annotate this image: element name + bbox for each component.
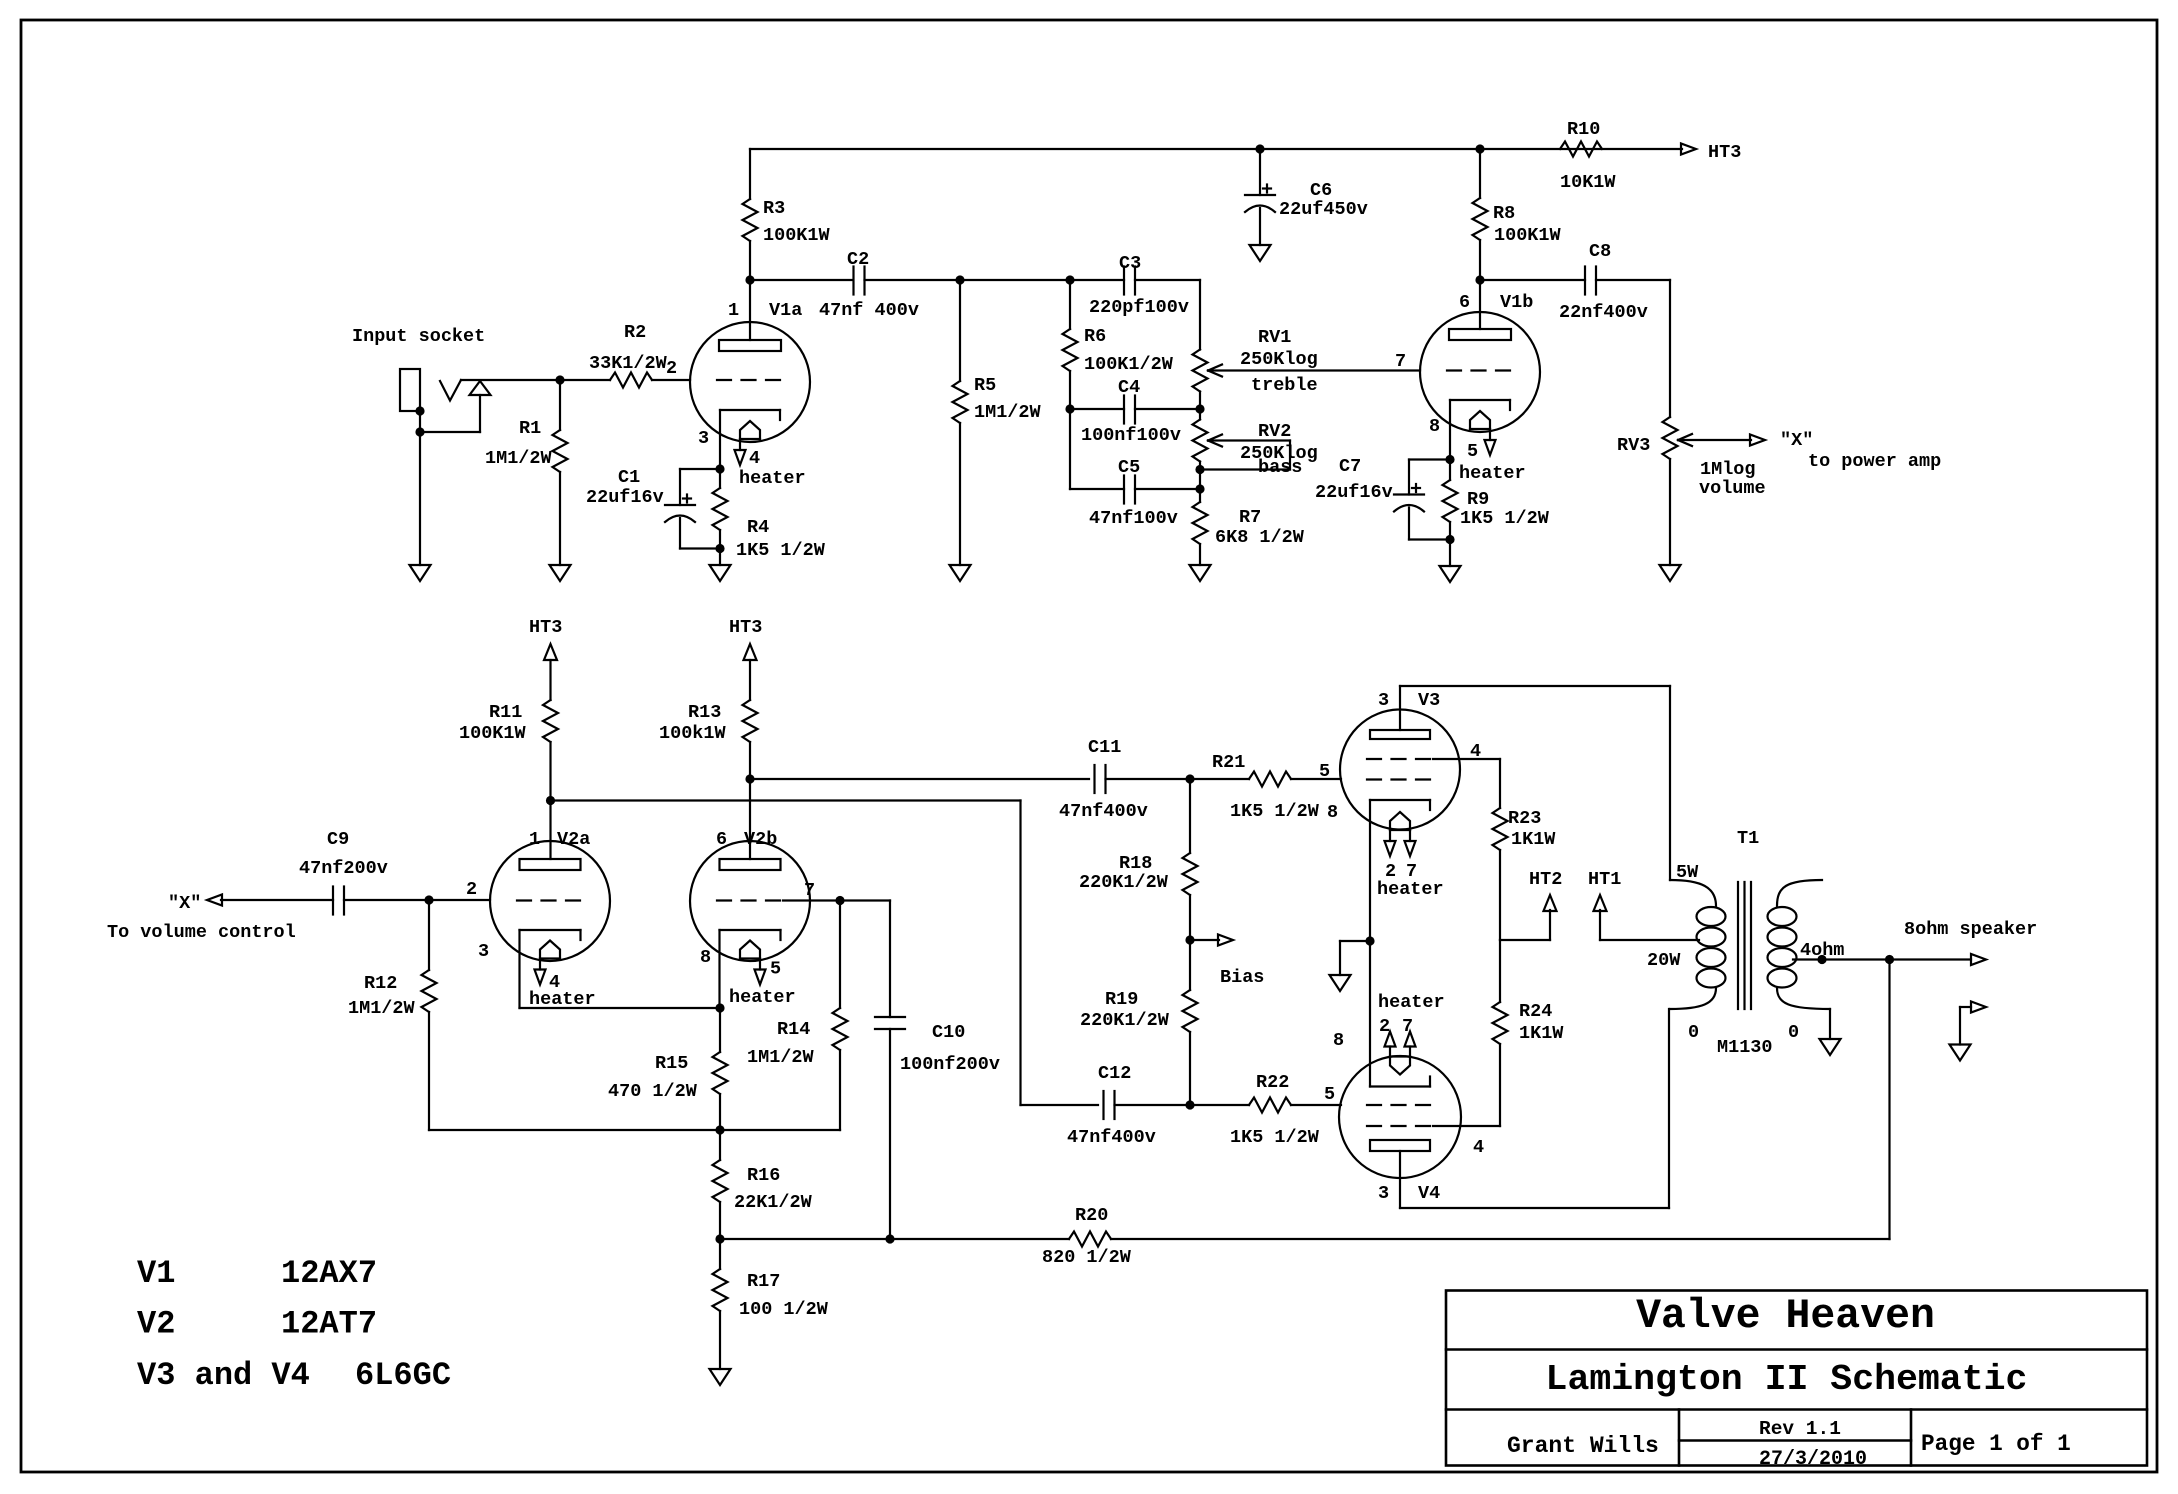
- svg-text:47nf400v: 47nf400v: [1059, 801, 1148, 822]
- resistor R15: [713, 1008, 728, 1130]
- label R9: [1460, 489, 1550, 529]
- svg-text:V3 and V4: V3 and V4: [137, 1357, 310, 1394]
- svg-text:0: 0: [1788, 1022, 1799, 1043]
- svg-text:R22: R22: [1256, 1072, 1289, 1093]
- resistor R12: [422, 900, 437, 1130]
- title page: [1921, 1431, 2071, 1457]
- capacitor C8: [1585, 267, 1596, 295]
- V3 plate loop to T1: [1400, 686, 1670, 880]
- label T1: [1647, 828, 1773, 1058]
- label V1b heater: [1459, 441, 1526, 484]
- arrow 8ohm speaker: [1971, 954, 1986, 965]
- pot RV2: [1193, 409, 1208, 474]
- svg-text:C9: C9: [327, 829, 349, 850]
- V4 screen grid: [1367, 1125, 1500, 1127]
- transformer T1 secondary: [1768, 880, 1831, 1009]
- label Bias: [1220, 967, 1264, 988]
- wire C12 to R22 node: [1115, 1104, 1191, 1106]
- ground C6: [1250, 245, 1271, 261]
- ground R5: [950, 565, 971, 581]
- svg-text:HT3: HT3: [729, 617, 762, 638]
- svg-text:1: 1: [529, 829, 540, 850]
- V1a grid: [717, 379, 783, 381]
- svg-text:Grant Wills: Grant Wills: [1507, 1433, 1659, 1459]
- svg-text:1M1/2W: 1M1/2W: [974, 402, 1042, 423]
- ground RV3: [1660, 565, 1681, 581]
- svg-text:220pf100v: 220pf100v: [1089, 297, 1189, 318]
- label V1a heater: [739, 448, 806, 489]
- label V2b heater: [729, 959, 796, 1009]
- tube V2b: [690, 841, 810, 961]
- svg-text:4ohm: 4ohm: [1800, 940, 1844, 961]
- ground R7: [1190, 565, 1211, 581]
- svg-text:R20: R20: [1075, 1205, 1108, 1226]
- label R19: [1080, 989, 1170, 1031]
- svg-text:6: 6: [1459, 292, 1470, 313]
- wire V2a cathode to V2b: [520, 1003, 725, 1012]
- svg-text:V2a: V2a: [557, 829, 590, 850]
- tube V4: [1339, 1056, 1461, 1178]
- tube list: [137, 1255, 451, 1394]
- resistor R7: [1193, 502, 1208, 565]
- title block frame: [1446, 1291, 2147, 1466]
- svg-text:R12: R12: [364, 973, 397, 994]
- svg-text:to power amp: to power amp: [1808, 451, 1941, 472]
- svg-text:R10: R10: [1567, 119, 1600, 140]
- svg-text:heater: heater: [1377, 879, 1444, 900]
- svg-text:22uf16v: 22uf16v: [1315, 482, 1393, 503]
- label V3 pin5: [1319, 761, 1330, 782]
- svg-text:V4: V4: [1418, 1183, 1440, 1204]
- ground R1: [550, 565, 571, 581]
- svg-text:V1b: V1b: [1500, 292, 1533, 313]
- label R18: [1079, 853, 1169, 893]
- V1b cathode: [1445, 400, 1510, 464]
- resistor R5: [953, 280, 968, 565]
- svg-text:220K1/2W: 220K1/2W: [1080, 1010, 1170, 1031]
- title Rev: [1759, 1418, 1841, 1440]
- speaker return: [1950, 1002, 1987, 1061]
- tube V2a: [490, 841, 610, 961]
- svg-text:R3: R3: [763, 198, 785, 219]
- svg-text:R14: R14: [777, 1019, 810, 1040]
- svg-text:M1130: M1130: [1717, 1037, 1773, 1058]
- label RV1: [1240, 327, 1318, 396]
- svg-text:22nf400v: 22nf400v: [1559, 302, 1648, 323]
- V2a plate: [520, 801, 581, 871]
- capacitor C2: [854, 267, 865, 295]
- HT3 supply V2b: [729, 617, 762, 700]
- title Grant Wills: [1507, 1433, 1659, 1459]
- label V1a pin3: [698, 428, 709, 449]
- wire V2a plate node: [551, 801, 1099, 1106]
- svg-text:20W: 20W: [1647, 950, 1681, 971]
- svg-text:Lamington II Schematic: Lamington II Schematic: [1546, 1359, 2028, 1400]
- svg-text:R24: R24: [1519, 1001, 1552, 1022]
- label C4: [1081, 377, 1181, 446]
- arrow X in: [168, 893, 222, 914]
- tube V1a: [690, 322, 810, 442]
- label V4 pin8: [1333, 1030, 1344, 1051]
- label C3: [1089, 253, 1189, 318]
- resistor R23: [1493, 808, 1508, 940]
- svg-text:heater: heater: [1378, 992, 1445, 1013]
- HT1 supply: [1588, 869, 1699, 940]
- label HT3 rail: [1708, 142, 1741, 163]
- svg-text:47nf 400v: 47nf 400v: [819, 300, 919, 321]
- label C12: [1067, 1063, 1156, 1148]
- svg-text:HT3: HT3: [529, 617, 562, 638]
- resistor R16: [713, 1130, 728, 1244]
- svg-text:C3: C3: [1119, 253, 1141, 274]
- transformer T1 primary: [1670, 880, 1726, 1009]
- label V2a pin2: [466, 879, 477, 900]
- V2a cathode: [520, 930, 581, 1008]
- label V3 pin8: [1327, 802, 1338, 823]
- title Lamington II Schematic: [1546, 1359, 2028, 1400]
- label secondary 0: [1788, 1022, 1799, 1043]
- svg-text:T1: T1: [1737, 828, 1759, 849]
- svg-text:220K1/2W: 220K1/2W: [1079, 872, 1169, 893]
- V2b cathode: [720, 930, 781, 1008]
- svg-text:R15: R15: [655, 1053, 688, 1074]
- ground input socket: [410, 432, 431, 581]
- resistor R18: [1183, 779, 1198, 945]
- svg-text:R19: R19: [1105, 989, 1138, 1010]
- svg-text:C12: C12: [1098, 1063, 1131, 1084]
- resistor R4: [713, 469, 728, 549]
- label V2a pin3: [478, 941, 489, 962]
- svg-text:8: 8: [1327, 802, 1338, 823]
- svg-text:2: 2: [666, 358, 677, 379]
- svg-text:R21: R21: [1212, 752, 1245, 773]
- label R8: [1493, 203, 1562, 246]
- svg-text:22uf16v: 22uf16v: [586, 487, 664, 508]
- ground V3 V4 cathodes: [1330, 941, 1371, 991]
- wire C9 to grid node: [344, 895, 490, 904]
- svg-text:1: 1: [728, 300, 739, 321]
- RV1 wiper: [1208, 365, 1420, 377]
- label R12: [348, 973, 416, 1019]
- svg-text:1K5 1/2W: 1K5 1/2W: [1230, 801, 1320, 822]
- V3 cathode: [1365, 800, 1430, 946]
- svg-text:4: 4: [1470, 741, 1481, 762]
- label C10: [900, 1022, 1000, 1075]
- V3 heater: [1385, 812, 1416, 856]
- wire C2 to R5 node: [865, 275, 1075, 284]
- label R22: [1230, 1072, 1320, 1148]
- label R1: [485, 418, 553, 469]
- label V4: [1378, 1183, 1440, 1204]
- svg-text:8: 8: [1429, 416, 1440, 437]
- svg-text:6K8 1/2W: 6K8 1/2W: [1215, 527, 1305, 548]
- ground R17: [710, 1369, 731, 1385]
- V1a cathode: [715, 410, 780, 474]
- label V2b pin6: [716, 829, 777, 850]
- resistor R8: [1473, 149, 1488, 285]
- capacitor C9: [333, 887, 344, 915]
- svg-text:V3: V3: [1418, 690, 1440, 711]
- svg-text:Valve Heaven: Valve Heaven: [1636, 1293, 1935, 1340]
- label R15: [608, 1053, 698, 1102]
- HT2 supply: [1500, 869, 1562, 940]
- V4 heater: [1385, 1032, 1416, 1075]
- svg-text:8: 8: [1333, 1030, 1344, 1051]
- V3 control grid: [1367, 778, 1433, 780]
- resistor R21: [1190, 772, 1341, 787]
- V2a grid: [517, 899, 583, 901]
- capacitor C11: [1095, 765, 1106, 793]
- svg-text:Input socket: Input socket: [352, 326, 485, 347]
- wire X to C9: [221, 899, 333, 901]
- wire C8 row: [1480, 279, 1585, 281]
- label V1b pin6: [1459, 292, 1533, 313]
- V1a heater: [735, 421, 761, 465]
- svg-text:HT3: HT3: [1708, 142, 1741, 163]
- capacitor C6: [1245, 149, 1275, 245]
- wire feedback row: [720, 1238, 1069, 1240]
- svg-text:3: 3: [1378, 690, 1389, 711]
- svg-text:820 1/2W: 820 1/2W: [1042, 1247, 1132, 1268]
- svg-text:V2: V2: [137, 1306, 175, 1343]
- label V3 heater: [1377, 861, 1444, 900]
- label V3: [1378, 690, 1440, 711]
- label V1a pin1: [728, 300, 802, 321]
- resistor R10: [1560, 142, 1602, 157]
- svg-text:Page 1 of 1: Page 1 of 1: [1921, 1431, 2071, 1457]
- resistor R20: [1069, 960, 1890, 1247]
- wire V2b plate node: [750, 778, 1089, 780]
- wire left bus down: [1070, 409, 1124, 489]
- svg-text:RV3: RV3: [1617, 435, 1650, 456]
- svg-text:R5: R5: [974, 375, 996, 396]
- svg-text:5: 5: [770, 959, 781, 980]
- svg-text:3: 3: [478, 941, 489, 962]
- label R23: [1508, 808, 1556, 850]
- V2a heater: [535, 941, 561, 985]
- svg-text:Bias: Bias: [1220, 967, 1264, 988]
- svg-text:7: 7: [1395, 351, 1406, 372]
- V4 plate loop to T1: [1400, 1009, 1669, 1208]
- label R11: [459, 702, 527, 744]
- capacitor C10: [875, 901, 905, 1244]
- wire C11 to R21 node: [1106, 774, 1195, 783]
- svg-text:HT1: HT1: [1588, 869, 1621, 890]
- label R20: [1042, 1205, 1132, 1268]
- ground R4: [710, 549, 731, 582]
- svg-text:HT2: HT2: [1529, 869, 1562, 890]
- svg-text:C4: C4: [1118, 377, 1140, 398]
- svg-text:100nf100v: 100nf100v: [1081, 425, 1181, 446]
- svg-text:5: 5: [1319, 761, 1330, 782]
- V2b pin7 wire: [783, 880, 890, 905]
- label V2b pin8: [700, 947, 711, 968]
- svg-text:5: 5: [1324, 1084, 1335, 1105]
- svg-text:47nf200v: 47nf200v: [299, 858, 388, 879]
- HT3 supply V2a: [529, 617, 562, 700]
- svg-text:R16: R16: [747, 1165, 780, 1186]
- svg-text:R2: R2: [624, 322, 646, 343]
- label Input socket: [352, 326, 485, 347]
- svg-text:33K1/2W: 33K1/2W: [589, 353, 668, 374]
- V2b heater: [740, 941, 766, 985]
- label R2: [589, 322, 677, 379]
- capacitor C4: [1124, 396, 1135, 424]
- svg-text:heater: heater: [739, 468, 806, 489]
- svg-text:8: 8: [700, 947, 711, 968]
- V1b plate: [1449, 280, 1511, 340]
- V2b grid: [717, 899, 783, 901]
- label R14: [747, 1019, 815, 1068]
- svg-text:100K1W: 100K1W: [763, 225, 831, 246]
- svg-text:4: 4: [1473, 1137, 1484, 1158]
- wire bus to R7: [1199, 470, 1201, 503]
- HT3 arrow right: [1681, 144, 1696, 155]
- title Valve Heaven: [1636, 1293, 1935, 1340]
- wire to C3: [1070, 279, 1124, 281]
- svg-text:47nf100v: 47nf100v: [1089, 508, 1178, 529]
- V4 plate: [1370, 1140, 1430, 1208]
- label V3 pin4: [1470, 741, 1481, 762]
- svg-text:RV1: RV1: [1258, 327, 1291, 348]
- svg-text:8ohm speaker: 8ohm speaker: [1904, 919, 2037, 940]
- svg-text:100K1W: 100K1W: [459, 723, 527, 744]
- ground R9: [1440, 540, 1461, 583]
- label RV2: [1240, 421, 1318, 478]
- svg-text:6L6GC: 6L6GC: [355, 1357, 451, 1394]
- svg-text:1M1/2W: 1M1/2W: [747, 1047, 815, 1068]
- wire plate node V1a: [750, 279, 853, 281]
- capacitor C5: [1124, 476, 1135, 504]
- label C5: [1089, 457, 1178, 529]
- Bias arrow: [1190, 935, 1233, 946]
- V3 plate: [1370, 686, 1430, 739]
- svg-text:7: 7: [804, 880, 815, 901]
- svg-text:treble: treble: [1251, 375, 1318, 396]
- capacitor C12: [1104, 1091, 1115, 1119]
- resistor R19: [1183, 940, 1198, 1110]
- resistor R2: [560, 373, 690, 388]
- svg-text:100K1W: 100K1W: [1494, 225, 1562, 246]
- ground T1 secondary: [1820, 1009, 1841, 1055]
- svg-text:volume: volume: [1699, 478, 1766, 499]
- svg-text:Rev 1.1: Rev 1.1: [1759, 1418, 1841, 1440]
- V4 cathode: [1370, 941, 1430, 1087]
- svg-text:heater: heater: [529, 989, 596, 1010]
- svg-text:V1a: V1a: [769, 300, 802, 321]
- svg-text:22K1/2W: 22K1/2W: [734, 1192, 813, 1213]
- svg-text:heater: heater: [729, 987, 796, 1008]
- label 4ohm: [1800, 940, 1844, 961]
- pot RV1: [1193, 280, 1208, 409]
- capacitor C3: [1124, 267, 1135, 295]
- wire C5 row right: [1135, 484, 1205, 493]
- resistor R24: [1493, 940, 1508, 1126]
- resistor R14: [720, 901, 848, 1131]
- svg-text:V1: V1: [137, 1255, 175, 1292]
- svg-text:4: 4: [749, 448, 760, 469]
- svg-text:100k1W: 100k1W: [659, 723, 727, 744]
- svg-text:2: 2: [466, 879, 477, 900]
- title date: [1759, 1448, 1867, 1471]
- V4 control grid: [1367, 1104, 1433, 1106]
- svg-text:22uf450v: 22uf450v: [1279, 199, 1368, 220]
- svg-text:1K1W: 1K1W: [1511, 829, 1556, 850]
- resistor R17: [713, 1239, 728, 1369]
- svg-text:250Klog: 250Klog: [1240, 349, 1318, 370]
- label C9: [299, 829, 388, 879]
- svg-text:1K1W: 1K1W: [1519, 1023, 1564, 1044]
- transformer T1 core: [1738, 882, 1751, 1009]
- label V2a heater: [529, 972, 596, 1010]
- label C1: [586, 467, 664, 508]
- svg-text:R18: R18: [1119, 853, 1152, 874]
- resistor R1: [553, 380, 568, 565]
- svg-text:R1: R1: [519, 418, 541, 439]
- wire 4ohm tap: [1793, 955, 1971, 964]
- svg-text:100 1/2W: 100 1/2W: [739, 1299, 829, 1320]
- input socket J1: [400, 369, 491, 437]
- svg-text:C6: C6: [1310, 180, 1332, 201]
- V2b plate: [720, 779, 781, 870]
- label C11: [1059, 737, 1148, 822]
- resistor R11: [543, 700, 558, 805]
- svg-text:3: 3: [698, 428, 709, 449]
- svg-text:C7: C7: [1339, 456, 1361, 477]
- svg-text:47nf400v: 47nf400v: [1067, 1127, 1156, 1148]
- svg-text:1K5 1/2W: 1K5 1/2W: [736, 540, 826, 561]
- svg-text:1K5 1/2W: 1K5 1/2W: [1230, 1127, 1320, 1148]
- svg-text:R11: R11: [489, 702, 522, 723]
- svg-text:To volume control: To volume control: [107, 922, 296, 943]
- wire R12 bottom row: [429, 1125, 725, 1134]
- tube V1b: [1420, 312, 1540, 432]
- svg-text:1M1/2W: 1M1/2W: [348, 998, 416, 1019]
- label R24: [1519, 1001, 1564, 1044]
- svg-text:12AX7: 12AX7: [281, 1255, 377, 1292]
- wire input to R1 node: [461, 375, 565, 384]
- svg-text:C2: C2: [847, 249, 869, 270]
- svg-text:R23: R23: [1508, 808, 1541, 829]
- label V4 pin4: [1473, 1137, 1484, 1158]
- label R3: [763, 198, 831, 246]
- label R13: [659, 702, 727, 744]
- svg-text:R9: R9: [1467, 489, 1489, 510]
- label 8ohm speaker: [1904, 919, 2037, 940]
- label R10: [1560, 119, 1616, 193]
- svg-text:"X": "X": [168, 893, 201, 914]
- svg-text:R4: R4: [747, 517, 769, 538]
- label C7: [1315, 456, 1393, 503]
- svg-text:2: 2: [1379, 1016, 1390, 1037]
- label V4 heater: [1378, 992, 1445, 1037]
- label R4: [736, 517, 826, 561]
- svg-text:470 1/2W: 470 1/2W: [608, 1081, 698, 1102]
- svg-text:7: 7: [1402, 1016, 1413, 1037]
- svg-text:10K1W: 10K1W: [1560, 172, 1616, 193]
- label C2: [819, 249, 919, 321]
- label R17: [739, 1271, 829, 1320]
- resistor R6: [1063, 280, 1078, 414]
- label R21: [1212, 752, 1320, 822]
- V3 screen grid: [1367, 759, 1500, 808]
- svg-text:C8: C8: [1589, 241, 1611, 262]
- label V1b pin7: [1395, 351, 1406, 372]
- svg-text:27/3/2010: 27/3/2010: [1759, 1448, 1867, 1471]
- label RV3: [1617, 435, 1766, 499]
- svg-text:0: 0: [1688, 1022, 1699, 1043]
- V1b heater: [1470, 411, 1496, 455]
